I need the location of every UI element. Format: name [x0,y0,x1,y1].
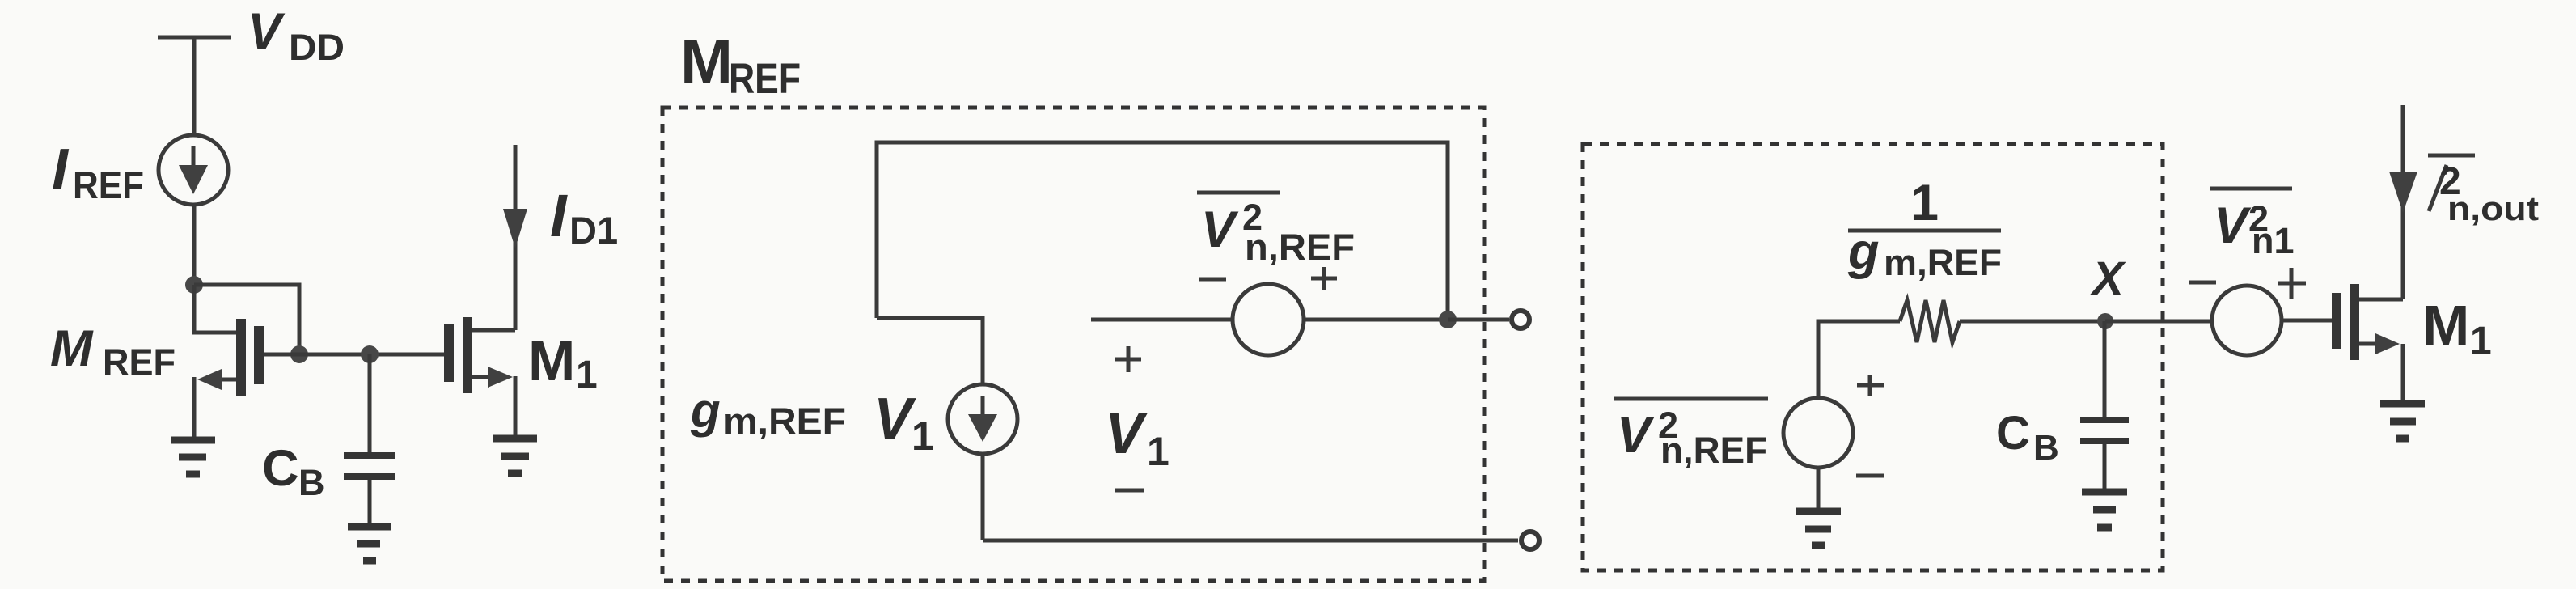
svg-text:M: M [680,26,733,97]
label i2 n,out [2428,155,2539,227]
plus V1 label [1115,346,1141,372]
node gate junction dot [290,345,308,363]
svg-text:M: M [528,329,575,392]
wire X to CB [2103,321,2107,417]
wire source up to resistor [1818,321,1900,400]
wire jog to source top [877,318,983,388]
minus sign [1199,278,1226,282]
label Vn1 squared [2210,189,2295,261]
svg-text:g: g [690,383,721,438]
wire CB to bus [368,354,372,452]
wire diode connection A to gate [194,285,299,354]
svg-text:1: 1 [912,413,934,459]
ground CB [348,527,391,561]
svg-text:V: V [2214,197,2252,254]
wire gate bus [299,353,444,357]
wire source to ground [1817,466,1821,508]
transistor M1 [449,145,515,439]
wire Vn1 to M1 gate [2282,319,2332,323]
minus sign [1856,474,1884,478]
svg-text:n,REF: n,REF [1660,430,1767,471]
svg-text:n1: n1 [2252,220,2295,261]
dependent source gmREF V1 [948,384,1017,454]
minus sign Vn1 [2189,281,2216,285]
current arrow ID1 [503,209,527,248]
label ID1 [550,182,618,252]
plus sign Vn1 [2278,268,2306,299]
label M1 right [2422,294,2492,362]
fraction label 1/gmREF [1847,175,2002,283]
svg-text:C: C [1996,407,2030,460]
noise source VnREF right [1783,398,1853,468]
node A junction dot [185,276,203,294]
svg-text:V: V [873,387,917,451]
svg-text:B: B [298,462,325,503]
svg-text:1: 1 [1910,175,1939,231]
wire bottom rail [983,539,1518,543]
terminal top [1512,311,1529,328]
label X [2090,252,2126,305]
terminal bottom [1521,532,1539,549]
svg-text:I: I [550,182,568,249]
plus sign [1311,267,1337,290]
svg-text:M: M [2422,294,2469,357]
label V1 source [873,387,934,459]
dashed box noise model [1583,144,2163,570]
capacitor CB [344,456,395,523]
svg-text:REF: REF [103,341,176,383]
wire IREF to node A [192,203,197,285]
svg-text:C: C [262,440,299,497]
svg-text:1: 1 [576,354,598,396]
node X dot [2097,313,2113,329]
node output junction dot [1439,311,1457,328]
svg-text:D1: D1 [569,209,618,252]
noise source Vn1 [2212,286,2282,355]
ground M1 right [2380,404,2425,439]
svg-text:DD: DD [289,27,345,68]
label CB right [1996,407,2059,468]
wire X to noise source Vn1 [2105,320,2212,324]
svg-text:I: I [52,138,70,202]
label VnREF squared [1197,193,1355,268]
dashed box MREF model [662,108,1484,581]
svg-text:REF: REF [73,163,144,206]
node CB junction dot [361,345,379,363]
plus sign [1857,375,1884,396]
resistor 1/gmREF [1900,300,1960,342]
svg-text:V: V [1617,407,1655,464]
label V1 across [1105,401,1170,474]
svg-text:V: V [1105,401,1148,466]
svg-text:m,REF: m,REF [723,400,846,442]
svg-text:M: M [50,320,94,377]
svg-text:n,out: n,out [2447,189,2539,227]
svg-text:1: 1 [2470,320,2492,362]
wire VDD to IREF [192,37,197,135]
transistor M1 right [2337,105,2403,401]
wire to top terminal [1448,318,1509,322]
wire resistor to node X [1960,320,2105,324]
label MREF box title [680,26,801,103]
wire source bottom [981,453,985,540]
minus V1 label [1115,489,1144,493]
svg-text:1: 1 [1147,429,1170,474]
transistor MREF [194,285,299,437]
svg-text:m,REF: m,REF [1884,242,2002,283]
svg-text:g: g [1847,223,1879,280]
ground M1 [493,439,537,473]
svg-text:X: X [2090,252,2126,305]
svg-text:V: V [247,3,286,60]
label MREF [50,320,176,383]
svg-text:B: B [2033,428,2059,468]
wire noise source left lead [1091,318,1233,322]
ground VnREF [1796,511,1841,545]
label gmREF [690,383,846,442]
wire top loop [877,142,1448,320]
current source IREF [159,135,228,205]
svg-text:REF: REF [729,55,801,103]
VDD rail [158,36,231,40]
ground CB right [2082,492,2127,528]
label VDD [247,3,345,68]
capacitor CB right [2080,420,2129,489]
current arrow i n,out [2389,172,2417,213]
noise source VnREF [1233,284,1304,355]
label M1 [528,329,598,396]
svg-text:n,REF: n,REF [1245,227,1355,268]
svg-text:V: V [1201,201,1239,258]
wire noise source right lead [1303,318,1448,322]
label IREF [52,138,144,206]
label VnREF squared right [1614,399,1768,471]
label CB [262,440,325,503]
ground MREF [171,440,215,474]
